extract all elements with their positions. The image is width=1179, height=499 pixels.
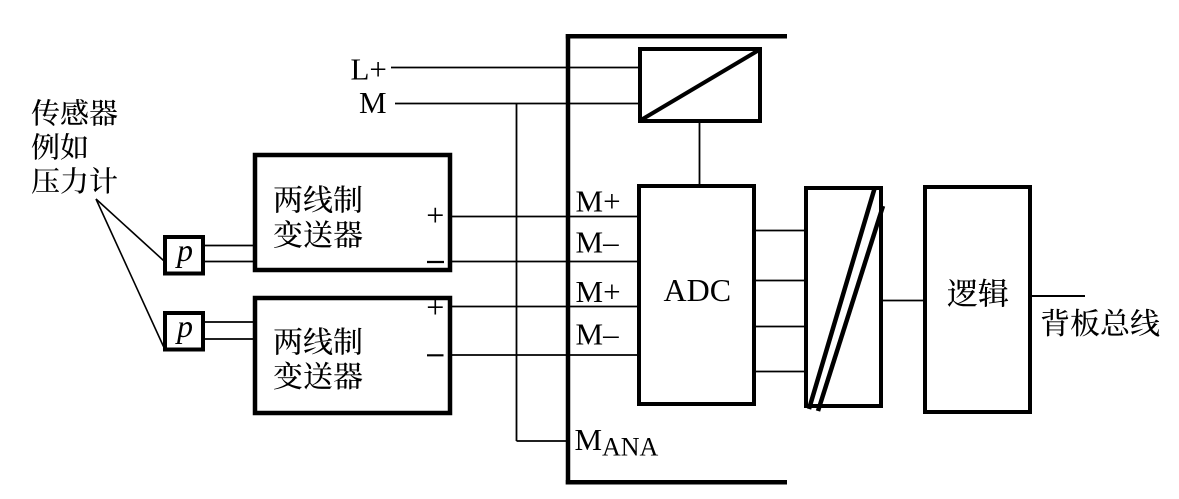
wire L+ to power converter xyxy=(391,67,640,69)
sensor P2 (pressure sensor p) xyxy=(165,308,203,350)
svg-text:p: p xyxy=(175,232,193,268)
wire backplane bus stub xyxy=(1032,295,1085,297)
wire ADC to isolation 2 xyxy=(756,280,807,282)
wire M− ch1 xyxy=(450,261,639,263)
svg-text:M: M xyxy=(359,85,387,120)
label U6: 逻辑 xyxy=(948,279,1008,307)
wire ADC to isolation 3 xyxy=(756,326,807,328)
svg-text:M+: M+ xyxy=(576,274,621,309)
svg-text:ANA: ANA xyxy=(602,433,659,462)
label U1: 两线制变送器 xyxy=(274,185,362,248)
svg-text:M–: M– xyxy=(576,225,620,260)
svg-text:+: + xyxy=(426,289,444,325)
svg-text:+: + xyxy=(426,197,444,233)
logic block U6 box xyxy=(925,187,1030,412)
leader line to sensor P1 xyxy=(96,199,164,261)
wire M to power converter xyxy=(395,103,640,105)
wire P2 to U2 upper xyxy=(205,321,255,323)
wire M drop to MANA terminal xyxy=(517,440,569,442)
wire M− ch2 xyxy=(450,354,639,356)
wire ADC to isolation 4 xyxy=(756,371,807,373)
wire U3 to ADC xyxy=(699,123,701,186)
ADC U4 box xyxy=(639,186,754,404)
wire ADC to isolation 1 xyxy=(756,230,807,232)
wire isolation to logic xyxy=(881,300,925,302)
svg-text:M+: M+ xyxy=(576,184,621,219)
pin − of U2 xyxy=(427,354,444,356)
svg-text:p: p xyxy=(175,308,193,344)
sensor P1 (pressure sensor p) xyxy=(165,232,203,274)
annotation text: sensor e.g. pressure gauge (传感器/例如/压力计) xyxy=(32,99,118,194)
svg-text:L+: L+ xyxy=(351,52,387,87)
transmitter U2 box xyxy=(255,298,450,413)
wire M+ ch1 xyxy=(450,216,639,218)
pin − of U1 xyxy=(427,261,444,263)
power supply converter U3 xyxy=(640,49,760,121)
wire P1 to U1 lower xyxy=(205,261,255,263)
terminal label MANA xyxy=(575,422,659,462)
svg-text:M–: M– xyxy=(576,317,620,352)
transmitter U1 box xyxy=(255,155,450,270)
module boundary (terminal strip) xyxy=(566,34,787,485)
galvanic isolation barrier U5 xyxy=(806,187,883,411)
wire P2 to U2 lower xyxy=(205,338,255,340)
wire M+ ch2 xyxy=(450,306,639,308)
label U2: 两线制变送器 xyxy=(274,327,362,389)
svg-text:ADC: ADC xyxy=(664,272,732,308)
wire P1 to U1 upper xyxy=(205,245,255,247)
label: 背板总线 (backplane bus) xyxy=(1042,309,1160,337)
leader line to sensor P2 xyxy=(96,199,164,347)
wire M drop vertical xyxy=(516,104,518,442)
svg-text:M: M xyxy=(575,422,603,457)
